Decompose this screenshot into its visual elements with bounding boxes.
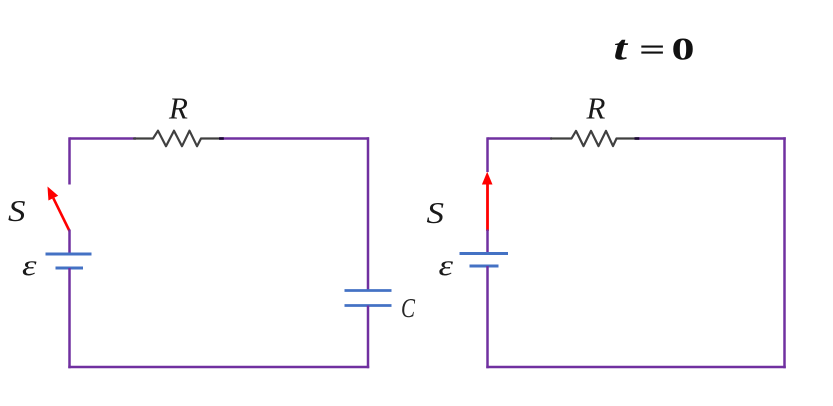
battery plate long (right circuit): [460, 252, 509, 255]
svg-text:R: R: [168, 91, 188, 126]
svg-text:S: S: [8, 193, 26, 228]
junction dot (right resistor right lead): [635, 137, 640, 140]
svg-text:R: R: [586, 91, 606, 126]
wire: right loop right vertical: [783, 137, 786, 368]
wire: left loop left vertical upper (above switch): [68, 137, 71, 184]
wire: left loop right vertical upper: [367, 137, 370, 290]
battery plate long (left circuit): [46, 253, 92, 256]
svg-text:ε: ε: [439, 249, 454, 282]
wire: left loop top-right purple segment: [220, 137, 369, 140]
battery plate short (left circuit): [56, 267, 84, 270]
switch S arm (open, red): [53, 198, 69, 231]
battery plate short (right circuit): [470, 265, 499, 268]
wire: right loop left vertical upper (above switch arrow): [486, 137, 489, 172]
svg-text:S: S: [427, 195, 445, 230]
svg-text:t=0: t=0: [614, 29, 695, 68]
wire: left switch to battery: [68, 230, 71, 256]
wire: right switch to battery: [486, 230, 489, 255]
wire: right loop top-right purple segment: [636, 137, 786, 140]
svg-text:ε: ε: [22, 249, 37, 282]
switch S arrowhead (up): [482, 172, 493, 185]
switch S arm (closed, red, on wire): [486, 183, 489, 231]
wire: right loop top-left purple segment: [488, 137, 553, 140]
junction dot (left resistor right lead): [219, 137, 224, 140]
resistor R2 (right circuit): [551, 131, 635, 146]
wire: left battery to bottom: [68, 268, 71, 368]
capacitor C plate top: [345, 289, 392, 292]
wire: right loop bottom horizontal: [486, 366, 786, 369]
switch S arrowhead: [48, 187, 59, 201]
wire: right battery to bottom: [486, 266, 489, 368]
wire: left loop top-left purple segment: [70, 137, 137, 140]
svg-text:C: C: [401, 293, 416, 323]
wire: left loop bottom horizontal: [68, 366, 369, 369]
resistor R1 (left circuit): [134, 131, 220, 147]
capacitor C plate bottom: [345, 304, 392, 307]
wire: left loop right vertical lower: [367, 306, 370, 369]
